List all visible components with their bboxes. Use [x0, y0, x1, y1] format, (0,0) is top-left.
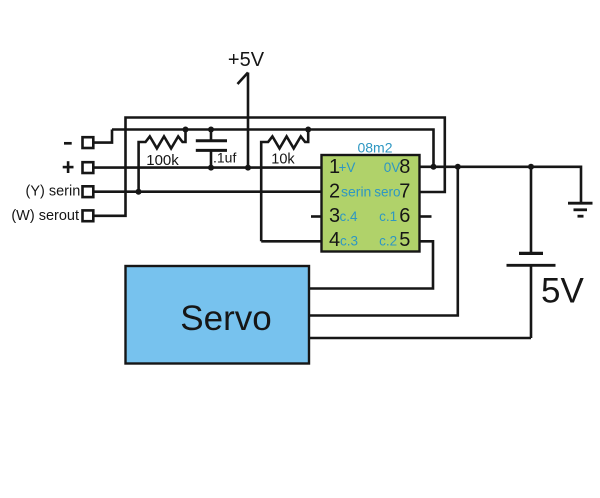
label + — [63, 161, 74, 173]
junction +5V-+V — [245, 165, 251, 171]
svg-text:sero: sero — [374, 184, 400, 199]
ground symbol — [568, 203, 593, 216]
svg-text:.1uf: .1uf — [213, 149, 236, 165]
wire servo mid to 0V bus — [309, 167, 458, 316]
capacitor C1 .1uf — [196, 130, 227, 168]
svg-text:6: 6 — [399, 205, 410, 227]
wire serin rail — [94, 190, 322, 193]
wire 0V rail — [112, 130, 434, 166]
svg-text:c.3: c.3 — [340, 234, 358, 249]
wire pin5 to servo signal — [309, 241, 433, 288]
junction servo-mid riser — [455, 164, 461, 170]
terminal TP2 (+) — [83, 162, 94, 173]
svg-text:4: 4 — [329, 229, 340, 251]
junction 0V-dropper — [431, 164, 437, 170]
IC U1 08m2 — [322, 155, 420, 252]
svg-text:5V: 5V — [541, 271, 584, 310]
wire R2 to pin4 — [261, 240, 321, 243]
pin 6 stub — [420, 215, 432, 218]
svg-text:2: 2 — [329, 180, 340, 202]
wire pin8 0V bus — [420, 167, 582, 202]
terminal TP1 (-) — [83, 137, 94, 148]
terminal TP3 (serin) — [83, 186, 94, 197]
svg-text:7: 7 — [399, 180, 410, 202]
svg-text:serin: serin — [341, 183, 371, 199]
svg-text:(W) serout: (W) serout — [11, 208, 79, 224]
wire TP1 to 0V rail — [94, 130, 112, 143]
resistor R1 100k — [139, 130, 186, 192]
battery B1 5V — [507, 167, 556, 338]
pin 3 stub — [311, 215, 322, 218]
terminal TP4 (serout) — [83, 210, 94, 221]
power +5V symbol — [238, 73, 249, 168]
wire serout to pin7 — [94, 118, 445, 216]
svg-text:8: 8 — [399, 156, 410, 178]
resistor R2 10k — [261, 130, 308, 242]
svg-text:+5V: +5V — [228, 49, 265, 71]
junction R2-0V — [305, 127, 311, 133]
label - — [64, 142, 72, 145]
svg-text:0V: 0V — [384, 160, 401, 175]
svg-text:100k: 100k — [146, 152, 179, 169]
junction C1-+V — [208, 165, 214, 171]
svg-text:c.4: c.4 — [340, 209, 359, 224]
junction R1-0V — [183, 127, 189, 133]
wire battery to servo bottom — [309, 337, 531, 340]
svg-text:08m2: 08m2 — [357, 140, 392, 156]
svg-text:c.2: c.2 — [379, 234, 397, 249]
junction R1-serin — [136, 189, 142, 195]
svg-text:+V: +V — [339, 160, 356, 175]
svg-text:3: 3 — [329, 205, 340, 227]
svg-text:Servo: Servo — [180, 299, 271, 338]
svg-text:c.1: c.1 — [379, 209, 397, 224]
wire +V rail — [94, 166, 322, 169]
servo M1 body — [126, 266, 310, 364]
svg-text:5: 5 — [399, 229, 410, 251]
svg-text:10k: 10k — [271, 152, 295, 168]
junction battery-top — [528, 164, 534, 170]
svg-text:(Y) serin: (Y) serin — [26, 184, 81, 200]
junction C1-0V — [208, 127, 214, 133]
